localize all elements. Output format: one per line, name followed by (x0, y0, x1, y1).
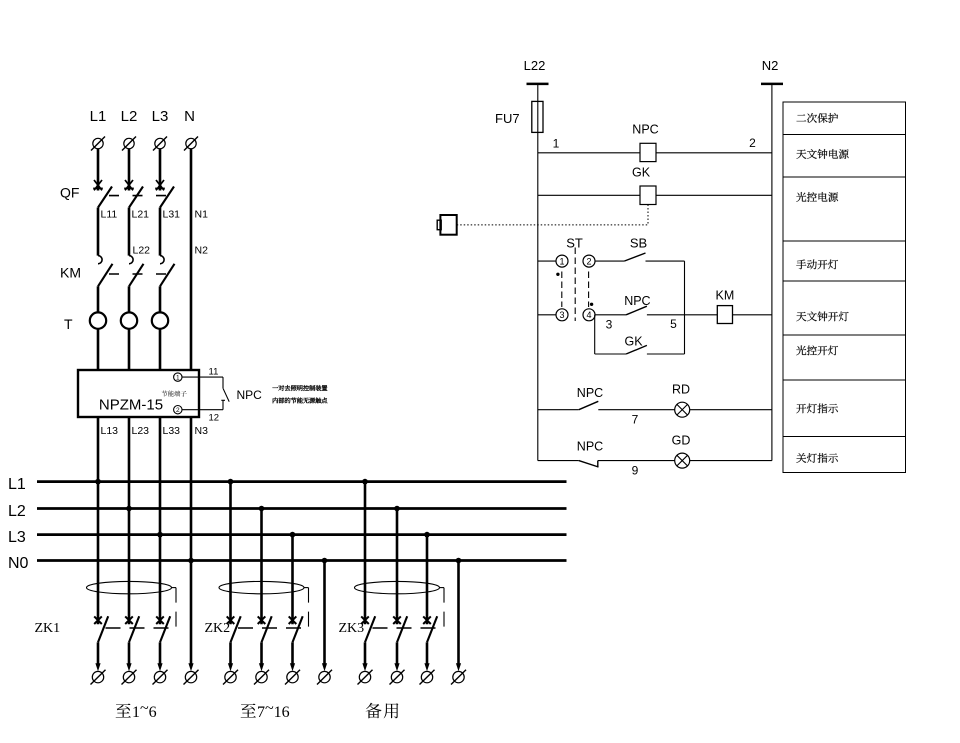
svg-text:2: 2 (176, 407, 180, 414)
svg-text:7~16: 7~16 (257, 700, 290, 721)
svg-text:L1: L1 (90, 108, 107, 125)
svg-text:1: 1 (559, 256, 564, 266)
svg-text:NPC: NPC (577, 439, 603, 453)
svg-text:N0: N0 (8, 555, 29, 572)
svg-text:GK: GK (632, 166, 651, 180)
svg-text:SB: SB (630, 236, 647, 251)
svg-text:L23: L23 (132, 425, 150, 437)
svg-text:L22: L22 (524, 58, 546, 73)
svg-text:N2: N2 (195, 245, 209, 257)
svg-text:L11: L11 (101, 209, 118, 221)
svg-text:L1: L1 (8, 476, 26, 493)
svg-text:12: 12 (209, 413, 220, 424)
svg-text:N2: N2 (762, 58, 779, 73)
svg-text:NPC: NPC (624, 294, 650, 308)
svg-text:5: 5 (670, 317, 677, 331)
svg-text:QF: QF (60, 185, 79, 201)
svg-text:ZK1: ZK1 (35, 621, 61, 636)
svg-text:KM: KM (716, 289, 735, 303)
svg-text:N: N (184, 108, 195, 125)
svg-text:T: T (64, 316, 73, 332)
svg-text:L2: L2 (8, 503, 26, 520)
svg-text:11: 11 (209, 367, 219, 378)
svg-text:N3: N3 (195, 425, 209, 437)
svg-text:ZK2: ZK2 (205, 621, 231, 636)
svg-text:3: 3 (559, 310, 564, 320)
svg-text:FU7: FU7 (495, 111, 520, 126)
svg-text:3: 3 (606, 318, 613, 332)
svg-text:L21: L21 (132, 209, 150, 221)
svg-text:2: 2 (749, 136, 756, 150)
svg-text:NPC: NPC (577, 386, 603, 400)
svg-text:L31: L31 (163, 209, 181, 221)
svg-text:1: 1 (553, 137, 560, 151)
svg-text:L33: L33 (163, 425, 181, 437)
svg-text:L13: L13 (101, 425, 119, 437)
svg-text:9: 9 (632, 464, 639, 478)
svg-text:L22: L22 (133, 245, 151, 257)
svg-text:7: 7 (632, 413, 639, 427)
svg-text:ST: ST (566, 236, 583, 251)
svg-text:GD: GD (672, 434, 691, 448)
svg-text:L2: L2 (121, 108, 138, 125)
svg-text:NPC: NPC (632, 123, 658, 137)
svg-text:4: 4 (586, 310, 591, 320)
svg-text:RD: RD (672, 383, 690, 397)
svg-text:L3: L3 (152, 108, 169, 125)
svg-text:1: 1 (176, 375, 180, 382)
svg-text:2: 2 (586, 256, 591, 266)
svg-text:L3: L3 (8, 529, 26, 546)
svg-text:ZK3: ZK3 (339, 621, 365, 636)
svg-text:NPC: NPC (237, 388, 263, 402)
svg-text:N1: N1 (195, 209, 209, 221)
svg-text:KM: KM (60, 265, 81, 281)
svg-text:GK: GK (624, 335, 643, 349)
svg-text:NPZM-15: NPZM-15 (99, 397, 163, 414)
